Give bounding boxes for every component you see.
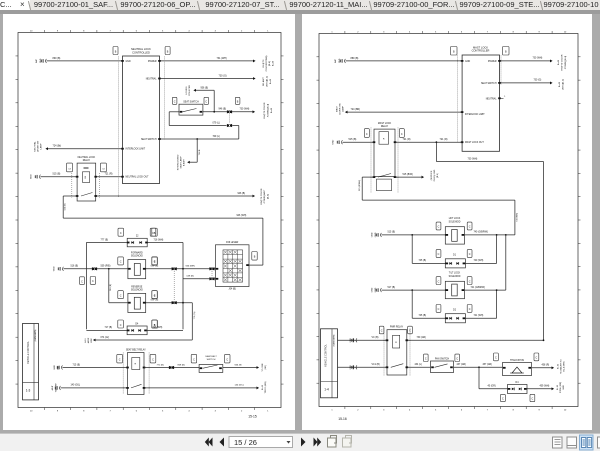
svg-text:C: C (119, 294, 121, 297)
wire 717(B) to D4 (86, 327, 127, 330)
svg-text:6: 6 (135, 410, 137, 412)
svg-text:GND: GND (40, 58, 42, 63)
svg-text:4: 4 (409, 409, 411, 411)
relay K4 PWR RELAY (385, 325, 407, 374)
connector box B left of controller (113, 46, 118, 54)
svg-text:SIGNAL/HS TO: SIGNAL/HS TO (559, 358, 562, 373)
svg-text:GND: GND (30, 173, 32, 178)
switch S2 SEAT BELT SWITCH (199, 355, 223, 372)
svg-text:R: R (134, 362, 136, 364)
wire 721(R) relay to mast lock out (395, 138, 462, 143)
svg-text:6: 6 (460, 31, 462, 33)
connector box left of relay (66, 163, 72, 172)
svg-text:REVERSE: REVERSE (131, 286, 142, 288)
svg-text:2: 2 (240, 30, 242, 32)
svg-text:INTERLOCK LIMIT: INTERLOCK LIMIT (465, 114, 485, 116)
wire 730(GR) pwr relay out to bus (406, 337, 543, 340)
svg-text:B/W: B/W (91, 338, 93, 342)
svg-text:B: B (253, 255, 255, 258)
svg-text:741 (G/BR/W): 741 (G/BR/W) (470, 286, 485, 288)
svg-text:D4: D4 (135, 323, 139, 325)
svg-text:C: C (437, 225, 439, 228)
svg-text:946 (B): 946 (B) (64, 203, 66, 210)
buzzer BZ1 (502, 358, 531, 375)
svg-text:730 (G): 730 (G) (218, 74, 226, 77)
svg-text:C: C (193, 358, 195, 361)
svg-text:4: 4 (188, 30, 190, 32)
svg-text:1-3: 1-3 (25, 388, 30, 392)
svg-text:074 (Gr): 074 (Gr) (100, 335, 109, 338)
svg-text:1: 1 (504, 96, 506, 98)
wire D4 out (147, 327, 183, 330)
svg-text:9: 9 (538, 409, 540, 411)
svg-text:(MAIN HARN): (MAIN HARN) (34, 329, 37, 341)
svg-text:SEAT BELT: SEAT BELT (205, 355, 217, 358)
wire 946(B) relay contact bus upper (95, 192, 254, 197)
svg-text:6: 6 (135, 30, 137, 32)
svg-text:RELAY: RELAY (380, 125, 388, 128)
svg-text:GND: GND (54, 364, 56, 369)
svg-text:721 (R): 721 (R) (104, 172, 112, 175)
wire 741(G/BR/W) tilt out (464, 234, 505, 289)
svg-text:SEAT BELT RELAY: SEAT BELT RELAY (125, 348, 145, 351)
svg-text:714 B: 714 B (199, 149, 201, 155)
svg-text:PAN SWITCH: PAN SWITCH (434, 357, 449, 360)
svg-text:POWER: POWER (487, 60, 496, 62)
svg-text:C: C (81, 280, 83, 283)
wire VC1(B) (337, 364, 387, 367)
svg-text:GND: GND (375, 232, 377, 237)
solenoid L1 FORWARD SOLENOID (127, 251, 145, 278)
svg-text:745 (B): 745 (B) (418, 315, 426, 317)
svg-text:A1-9: A1-9 (84, 337, 87, 342)
svg-text:517 (B): 517 (B) (387, 286, 395, 288)
connector boxes lift solenoid (436, 222, 472, 230)
svg-text:C: C (424, 357, 426, 360)
svg-text:SEAT SWITCH: SEAT SWITCH (481, 81, 497, 84)
svg-text:8: 8 (512, 31, 514, 33)
svg-text:10: 10 (29, 30, 32, 32)
svg-text:(WH) [B-2]: (WH) [B-2] (562, 78, 564, 89)
svg-text:740 (WH): 740 (WH) (473, 260, 483, 262)
wire 434(B) relay to pan switch (406, 364, 430, 367)
svg-text:P/PNL (B/B): P/PNL (B/B) (560, 381, 562, 393)
dashed link solenoid connectors (173, 271, 175, 301)
svg-text:9: 9 (56, 410, 58, 412)
svg-text:SOLENOID: SOLENOID (130, 255, 142, 257)
inline connector on 516 (91, 267, 96, 270)
wire 730(G) NEUTRAL output (159, 74, 255, 79)
connector box left top right page (450, 46, 457, 55)
net label buzzer right margin (557, 358, 565, 373)
svg-text:049 (B): 049 (B) (186, 275, 193, 277)
svg-text:771 (Or): 771 (Or) (192, 311, 195, 319)
svg-text:3: 3 (383, 31, 385, 33)
svg-text:C3: C3 (102, 168, 104, 170)
dashed boundaries pwr relay (384, 328, 410, 375)
svg-text:TD/CO (WH): TD/CO (WH) (265, 381, 267, 393)
svg-text:5: 5 (162, 30, 164, 32)
svg-text:C: C (468, 280, 470, 283)
svg-text:C: C (205, 100, 207, 103)
svg-text:B: B (452, 50, 454, 53)
connector boxes seat belt switch (191, 354, 230, 363)
svg-text:HOURS: HOURS (186, 86, 188, 94)
svg-text:140 (G/L): 140 (G/L) (234, 384, 244, 386)
svg-text:RELAY: RELAY (82, 159, 90, 162)
svg-text:SWITCH: SWITCH (206, 359, 215, 361)
wire 515(B) gnd to relay coil (40, 172, 77, 176)
svg-text:2: 2 (357, 31, 359, 33)
wire 516(B)/559(R/B) (63, 265, 127, 269)
svg-text:946 (B): 946 (B) (237, 192, 245, 194)
connector boxes diode D2 (436, 304, 472, 312)
svg-text:6: 6 (460, 409, 462, 411)
relay lower box right page (376, 179, 391, 191)
svg-text:3: 3 (214, 30, 216, 32)
connector boxes seat belt relay (116, 354, 155, 363)
ground source for relay (30, 173, 40, 178)
wire 771(Or) down (192, 302, 196, 339)
svg-text:C: C (468, 225, 470, 228)
wire 946(B)/730(WH) seat switch output (202, 108, 254, 113)
svg-text:GND: GND (332, 139, 334, 144)
svg-text:BAT: BAT (35, 58, 38, 63)
dashed boundary left of mast controller (456, 55, 458, 142)
battery source right page (334, 58, 346, 63)
wire 45(GR) branch down (479, 367, 508, 389)
svg-text:45 (GR): 45 (GR) (487, 385, 495, 387)
svg-text:3: 3 (383, 409, 385, 411)
svg-text:RH(F76 COLOR: RH(F76 COLOR (561, 54, 563, 70)
wire 515(B) to lift solenoid (381, 231, 445, 235)
inline connectors at fuse feeds (209, 267, 214, 280)
svg-text:RR(F76 COLOR: RR(F76 COLOR (261, 188, 263, 204)
svg-text:731 (WH): 731 (WH) (216, 56, 226, 59)
svg-text:LEVER SW: LEVER SW (339, 102, 341, 114)
svg-text:730 (WH): 730 (WH) (516, 212, 518, 221)
svg-text:R: R (382, 138, 384, 140)
harness dashed boundary left of controller (117, 56, 119, 197)
svg-text:[B-6]: [B-6] (437, 172, 439, 177)
wire 730(WH) POWER out (499, 57, 552, 62)
svg-text:946 (WH): 946 (WH) (185, 265, 195, 267)
svg-text:C: C (531, 397, 533, 400)
stub neutral pin (499, 96, 506, 98)
dashed boundary left of relay (70, 173, 72, 198)
wire 437(GR) (453, 364, 502, 368)
fuse 22 inline (126, 235, 147, 246)
svg-text:079 (L): 079 (L) (212, 122, 220, 124)
svg-text:946 (B): 946 (B) (218, 108, 226, 110)
svg-text:15 / 26: 15 / 26 (234, 438, 257, 447)
svg-text:10: 10 (563, 409, 566, 411)
net label seat right margin (559, 78, 565, 89)
svg-text:15-15: 15-15 (248, 414, 257, 418)
connector boxes buzzer (493, 353, 538, 361)
net label RH F76 COLOR/COMB (263, 55, 275, 71)
diode block D4 right page (507, 381, 527, 393)
svg-text:LAMP: LAMP (39, 142, 42, 148)
svg-text:C: C (153, 260, 155, 263)
svg-text:B+40: B+40 (272, 60, 274, 66)
net label right margin 140 (262, 381, 267, 393)
connector box on fuse drop (251, 251, 256, 260)
net label NEUTRAL LEVER SW LAMP (33, 139, 42, 151)
svg-text:B: B (114, 50, 116, 53)
svg-text:C: C (400, 132, 402, 135)
svg-text:D2: D2 (453, 309, 457, 311)
controller U2 VEHICLE CONTROL (22, 323, 38, 399)
svg-text:GND: GND (375, 287, 377, 292)
svg-text:956 (B): 956 (B) (200, 87, 208, 89)
svg-text:GND: GND (125, 60, 130, 62)
wire 956(B) to hour meter (193, 87, 215, 112)
svg-text:FORWARD: FORWARD (130, 251, 142, 254)
svg-text:/COMB) [B-4]: /COMB) [B-4] (267, 103, 269, 117)
svg-text:890 (B): 890 (B) (52, 57, 60, 60)
svg-text:GND: GND (371, 232, 373, 237)
solenoid L2 REVERSE SOLENOID (127, 286, 145, 312)
svg-text:NEUTRAL: NEUTRAL (33, 140, 36, 151)
page number 15-15 (248, 414, 257, 418)
connector boxes tilt solenoid (436, 276, 472, 284)
svg-text:R: R (395, 342, 397, 344)
svg-text:CONTROLLED: CONTROLLED (132, 50, 150, 54)
connector box B6 seat circuit (235, 97, 240, 104)
wire 515(B/WH) relay return to solenoid bus (358, 177, 518, 235)
svg-text:MAST: MAST (335, 105, 338, 112)
svg-text:869 (B): 869 (B) (177, 364, 184, 366)
right bus vertical 46WH (542, 161, 544, 340)
inline connector on 079 wire (226, 123, 231, 126)
svg-text:VC1 (B): VC1 (B) (371, 364, 379, 366)
wire 869(B) relay to seat belt switch (144, 364, 199, 367)
svg-text:BAT: BAT (334, 58, 337, 63)
svg-text:C: C (495, 356, 497, 359)
svg-text:VEHICLE CONTROL: VEHICLE CONTROL (324, 343, 327, 366)
connector boxes below diode right page (500, 394, 534, 401)
svg-text:8: 8 (83, 30, 85, 32)
svg-text:1: 1 (331, 31, 333, 33)
svg-text:SOLENOID: SOLENOID (448, 275, 460, 277)
svg-text:SEAT SWITCH: SEAT SWITCH (141, 138, 157, 141)
svg-text:GND: GND (465, 60, 470, 62)
connector boxes mast relay (364, 128, 404, 137)
connector box rail 2 (151, 256, 156, 264)
svg-text:22: 22 (135, 235, 138, 237)
wire 515(B/W) relay contact out (395, 173, 424, 178)
svg-text:D1: D1 (453, 254, 457, 256)
inline connector on 869 (168, 365, 173, 368)
svg-text:724 (BR): 724 (BR) (350, 107, 360, 110)
svg-text:MAST LOCK: MAST LOCK (377, 121, 391, 124)
svg-text:SOLENOID: SOLENOID (130, 289, 142, 291)
wire 745(B) to D2 (412, 290, 445, 318)
svg-text:/COMB) A/MT: /COMB) A/MT (263, 189, 266, 203)
wire 740(G/BR/W) lift out (464, 231, 514, 235)
svg-text:PLUG) GND: PLUG) GND (434, 169, 436, 181)
svg-text:C: C (119, 260, 121, 263)
svg-text:NEUTRAL: NEUTRAL (485, 97, 496, 100)
svg-text:5: 5 (162, 410, 164, 412)
svg-text:F06 LEVER: F06 LEVER (226, 242, 238, 244)
svg-text:516 (B): 516 (B) (110, 283, 112, 290)
svg-text:INTERLOCK LIMIT: INTERLOCK LIMIT (125, 148, 145, 150)
svg-text:946 4B: 946 4B (234, 364, 241, 366)
connector boxes around fuse 22 (118, 228, 156, 236)
svg-text:740 (G/BR/W): 740 (G/BR/W) (473, 231, 488, 233)
svg-text:YO-ONE: YO-ONE (262, 362, 264, 371)
connector box rail 4 (151, 320, 156, 328)
svg-text:NEUTRAL: NEUTRAL (145, 77, 156, 80)
svg-text:GND: GND (563, 384, 565, 389)
svg-text:C: C (153, 294, 155, 297)
diode block D2 (445, 309, 465, 322)
svg-text:559 (R/B): 559 (R/B) (100, 265, 110, 267)
svg-text:10: 10 (29, 410, 32, 412)
wire 459(WH) out (527, 385, 554, 390)
relay K3 MAST LOCK RELAY (372, 121, 396, 177)
svg-text:COLOR/COMB): COLOR/COMB) (266, 55, 268, 71)
wire 730(WH) branch down to bus (436, 142, 543, 161)
left vertical bus 777 (85, 242, 87, 329)
net label RR A/MT (262, 75, 272, 86)
svg-text:777 (B): 777 (B) (100, 239, 108, 241)
svg-text:2: 2 (357, 409, 359, 411)
inline connector reverse out (171, 301, 176, 304)
harness dashed boundary right of controller (163, 56, 165, 140)
svg-text:724 (Br): 724 (Br) (52, 144, 61, 147)
svg-text:C: C (226, 358, 228, 361)
wire VC(B) to pwr relay (337, 337, 387, 340)
svg-text:C: C (468, 253, 470, 256)
wire 890(B) BAT to controller GND (46, 57, 122, 61)
svg-text:1-4: 1-4 (324, 387, 329, 391)
solenoid L4 TILT LOCK SOLENOID (445, 272, 464, 298)
wire 724(Br) interlock limit (45, 144, 122, 150)
svg-text:437 (GR): 437 (GR) (456, 364, 466, 366)
drawing border frame left page (15, 30, 283, 413)
svg-text:C: C (152, 231, 154, 234)
switch S1 SEAT SWITCH (179, 100, 203, 114)
svg-text:C3: C3 (68, 168, 70, 170)
svg-text:A/MT: A/MT (51, 384, 54, 390)
svg-text:C: C (152, 358, 154, 361)
svg-text:B+10: B+10 (557, 384, 559, 390)
svg-text:745 (B): 745 (B) (418, 260, 426, 262)
connector box under 516 branch (90, 276, 95, 284)
fuse feed wire 049(B) (185, 265, 215, 268)
relay K2 SEAT BELT RELAY (125, 348, 145, 394)
svg-text:B+40: B+40 (262, 384, 264, 390)
net label d4 right margin (557, 381, 565, 393)
svg-text:/COMB) [B-4]: /COMB) [B-4] (565, 55, 567, 69)
svg-text:717 (B): 717 (B) (104, 327, 112, 329)
inline connector on seat output wire (226, 110, 231, 113)
controller U4 VEHICLE CONTROL right page (320, 328, 337, 397)
svg-text:515 (B/WH): 515 (B/WH) (358, 179, 360, 190)
wire 714 B to interlocked seat lamp (187, 138, 201, 164)
svg-text:PWR RELAY: PWR RELAY (389, 325, 403, 328)
dashed boundaries seat belt relay (123, 352, 149, 394)
pin stubs vc gnd row2 (350, 364, 357, 369)
wire 946(WH) relay contact bus lower (63, 196, 263, 218)
svg-text:515 (B): 515 (B) (348, 138, 356, 141)
net label HOURS COUNTER (186, 84, 191, 95)
wire 889(B) (345, 56, 462, 60)
switch S3 PAN SWITCH (430, 357, 453, 372)
svg-text:C: C (92, 280, 94, 283)
battery source BAT (35, 58, 47, 63)
svg-text:9: 9 (56, 30, 58, 32)
svg-text:1: 1 (267, 30, 269, 32)
connector boxes forward solenoid (117, 256, 157, 264)
ground source mast relay (332, 139, 342, 144)
connector boxes left rail (151, 228, 156, 236)
svg-text:INTERLOCKED: INTERLOCKED (177, 154, 179, 170)
page number 15-16 (338, 417, 347, 421)
svg-text:C: C (119, 323, 121, 326)
svg-text:434 (L): 434 (L) (414, 364, 422, 366)
svg-text:C: C (502, 397, 504, 400)
svg-text:B+40: B+40 (270, 78, 272, 84)
connector boxes pan switch (423, 354, 459, 361)
svg-text:GND: GND (339, 58, 341, 63)
wire 741(WH) D2 out (465, 289, 497, 318)
wire fuse22 to right bus (147, 239, 183, 242)
wire forward solenoid out (145, 265, 186, 269)
svg-text:B+40: B+40 (558, 59, 560, 65)
dashed boundary right of mast controller (500, 55, 502, 85)
svg-text:C: C (365, 132, 367, 135)
svg-text:COUNTER: COUNTER (189, 84, 191, 95)
svg-text:9: 9 (538, 31, 540, 33)
drawing border frame right page (316, 31, 580, 412)
svg-text:BAT: BAT (56, 364, 59, 369)
svg-text:C: C (119, 231, 121, 234)
connector boxes diode D4 (117, 320, 157, 328)
svg-text:889 (B): 889 (B) (350, 56, 358, 59)
wire 730(G) SEAT SWITCH out (499, 79, 552, 84)
wire 517(B) to tilt solenoid (381, 286, 445, 290)
connector box B right of controller (165, 46, 170, 54)
svg-text:516 (B): 516 (B) (70, 265, 78, 267)
connector box rail 3 (151, 290, 156, 298)
svg-text:BL-A (WH): BL-A (WH) (562, 361, 565, 371)
source stub bat seat belt (54, 364, 63, 369)
wire 079(L) seat switch return (169, 111, 226, 125)
svg-text:771 (B): 771 (B) (156, 364, 163, 366)
svg-text:716 (WH): 716 (WH) (153, 239, 163, 241)
ground source GND forward (53, 265, 63, 270)
svg-text:VC (B): VC (B) (371, 337, 378, 339)
svg-text:946 (WH): 946 (WH) (236, 214, 246, 216)
svg-text:730 (WH): 730 (WH) (532, 57, 542, 59)
svg-text:LIFT LOCK: LIFT LOCK (448, 218, 460, 220)
svg-text:721 (R): 721 (R) (439, 138, 447, 141)
svg-text:7: 7 (486, 31, 488, 33)
svg-text:NEUTRAL LOCK: NEUTRAL LOCK (77, 156, 95, 159)
svg-text:3: 3 (214, 410, 216, 412)
controller U1 NEUTRAL LOCK CONTROLLED (121, 47, 161, 184)
svg-text:GND: GND (371, 287, 373, 292)
wire 140(G/L) (60, 384, 127, 387)
svg-text:1: 1 (331, 409, 333, 411)
wire reverse solenoid out (145, 299, 192, 303)
svg-text:[B-6]: [B-6] (267, 193, 269, 198)
net label INTERLOCKED SEAT LAMP (177, 154, 185, 170)
